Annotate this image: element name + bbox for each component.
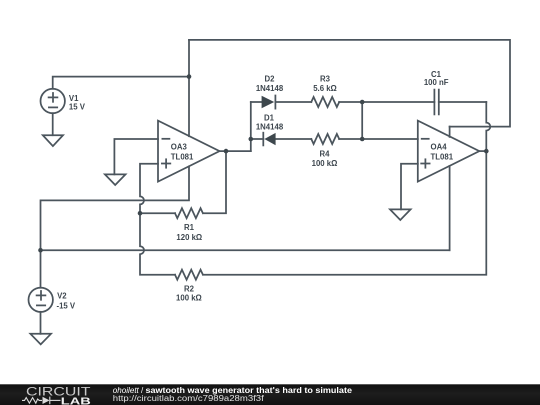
svg-text:R3: R3 — [320, 75, 331, 84]
wire vertical x362 between nodes — [361, 102, 363, 139]
svg-text:TL081: TL081 — [171, 153, 194, 162]
wire OA3 V- pin left and down to V2 — [41, 166, 190, 287]
svg-text:D1: D1 — [264, 113, 275, 122]
wire feedback vertical x486 (hop at 126.6) — [203, 102, 490, 275]
diode D2 cathode bar — [274, 96, 276, 109]
wire negative rail — [41, 249, 450, 251]
svg-text:100 kΩ: 100 kΩ — [176, 293, 202, 302]
wire C1 right plate to feedback corner — [439, 101, 487, 103]
wire R1 left to plus-input vertical — [140, 212, 175, 214]
CircuitLab logo wordmark — [26, 387, 91, 405]
wire R3 to C1 node — [339, 101, 362, 103]
svg-text:OA4: OA4 — [431, 143, 448, 152]
svg-text:R1: R1 — [184, 223, 195, 232]
wire V1 bottom to ground — [52, 113, 54, 135]
svg-text:1N4148: 1N4148 — [256, 122, 284, 131]
svg-text:TL081: TL081 — [431, 152, 454, 161]
svg-text:120 kΩ: 120 kΩ — [176, 233, 202, 242]
svg-text:5.6 kΩ: 5.6 kΩ — [313, 84, 337, 93]
wire OA4 output stub — [479, 150, 486, 152]
svg-text:100 nF: 100 nF — [424, 78, 449, 87]
logo diode triangle — [43, 397, 50, 404]
op-amp OA3 triangle — [158, 121, 220, 182]
diode D1 triangle — [264, 133, 275, 145]
junction dot OA3 output — [224, 149, 229, 154]
junction dot R3/C1 node — [360, 100, 365, 105]
wire D2 row left stub — [251, 101, 262, 103]
wire OA4 plus input to ground — [401, 164, 418, 210]
svg-text:1N4148: 1N4148 — [256, 84, 284, 93]
resistor R2 — [175, 270, 203, 280]
svg-text:-15 V: -15 V — [57, 302, 76, 311]
resistor R1 — [175, 208, 203, 218]
wire OA3 minus input to ground — [114, 139, 158, 174]
svg-text:http://circuitlab.com/c7989a28: http://circuitlab.com/c7989a28m3f3f — [113, 394, 265, 403]
svg-text:15 V: 15 V — [69, 103, 86, 112]
wire C1 node to left plate — [362, 101, 434, 103]
svg-text:R4: R4 — [320, 149, 331, 158]
wire V1 top to rail junction — [53, 77, 189, 89]
wire V2 bottom to ground — [40, 312, 42, 334]
svg-text:OA3: OA3 — [171, 143, 188, 152]
wire OA3 plus input down to R2 row (with hops) — [140, 164, 175, 275]
ground at OA4 plus — [390, 209, 411, 220]
svg-text:D2: D2 — [265, 75, 276, 84]
wire vertical x250.8 output to D2 row — [250, 102, 252, 151]
footer credit line — [113, 386, 353, 403]
diode D2 triangle — [262, 96, 275, 108]
wire D1 to R4 — [276, 138, 312, 140]
op-amp OA4 triangle — [418, 121, 480, 182]
svg-text:V2: V2 — [57, 292, 67, 301]
wire node to OA4 minus input — [362, 138, 418, 140]
junction dot V1 rail — [187, 74, 192, 79]
capacitor C1 plates — [433, 90, 435, 115]
ground below V2 — [30, 334, 51, 345]
ground at OA3 minus — [105, 174, 126, 185]
junction dot OA4 output — [484, 149, 489, 154]
svg-text:LAB: LAB — [61, 395, 92, 405]
wire vertical x189 OA3 V+ pin — [188, 40, 190, 136]
footer bar — [0, 384, 540, 405]
junction dot V- rail at V2 — [38, 248, 43, 253]
wire top rail — [189, 40, 510, 127]
logo mini schematic (resistor + diode) — [22, 397, 61, 405]
voltage source V2 — [29, 288, 53, 312]
wire R1 right vertical to output — [203, 151, 226, 213]
wire OA4 V- pin down to rail — [449, 166, 451, 250]
junction dot R1 left — [138, 211, 143, 216]
resistor R4 — [311, 134, 339, 144]
svg-text:100 kΩ: 100 kΩ — [312, 159, 338, 168]
wire D2 cathode to R3 — [275, 101, 311, 103]
wire R4 to node — [339, 138, 362, 140]
wire D1 row left stub — [251, 138, 263, 140]
wire OA4 V+ pin — [449, 127, 451, 137]
resistor R3 — [311, 97, 339, 107]
voltage source V1 — [41, 89, 65, 113]
junction dot D1 row — [249, 137, 254, 142]
ground below V1 — [43, 135, 63, 146]
diode D1 cathode bar — [262, 133, 264, 146]
wire OA3 output row — [220, 150, 251, 152]
junction dot R4/OA4 node — [360, 137, 365, 142]
